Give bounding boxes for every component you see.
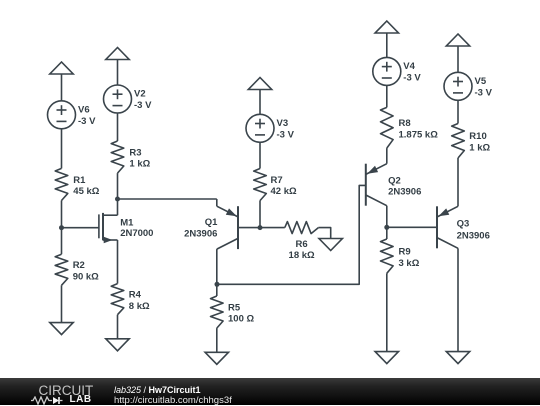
svg-text:R1: R1: [73, 175, 86, 186]
node at R1/R2/M1-gate junction: [59, 225, 64, 230]
resistor R2 90 kOhm: [55, 254, 99, 285]
svg-text:-3 V: -3 V: [78, 116, 96, 127]
wire: [117, 173, 119, 215]
wire: [260, 227, 285, 229]
wire Q1 collector: [216, 249, 218, 296]
svg-text:R8: R8: [399, 118, 411, 129]
resistor R5 100 Ohm: [211, 296, 255, 328]
transistor Q2 2N3906 PNP: [366, 164, 422, 206]
footer title text: [114, 385, 201, 395]
resistor R4 8 kOhm: [111, 284, 150, 315]
CircuitLab logo wordmark: [39, 383, 94, 398]
logo resistor+diode glyph: [31, 396, 71, 405]
wire Q3 collector: [457, 248, 459, 351]
svg-text:100 Ω: 100 Ω: [228, 314, 254, 325]
footer url text: [114, 395, 232, 406]
svg-text:R3: R3: [129, 147, 141, 158]
node at R7/R6/Q1-base junction: [258, 225, 263, 230]
svg-text:-3 V: -3 V: [475, 87, 493, 98]
wire to M1 gate: [62, 227, 99, 229]
wire: [61, 285, 63, 322]
svg-text:2N3906: 2N3906: [457, 230, 490, 241]
wire: [216, 328, 218, 352]
wire: [457, 158, 459, 206]
wire node A to Q2 base: [217, 185, 366, 284]
wire: [117, 315, 119, 339]
voltage source V2 -3 V: [104, 85, 153, 113]
svg-text:R10: R10: [469, 131, 486, 142]
svg-text:18 kΩ: 18 kΩ: [289, 250, 315, 261]
voltage source V3 -3 V: [246, 114, 295, 142]
svg-text:Q2: Q2: [388, 176, 401, 187]
wire: [117, 240, 119, 284]
wire: [117, 60, 119, 86]
svg-text:V6: V6: [78, 105, 90, 116]
wire: [259, 90, 261, 115]
svg-text:R5: R5: [228, 302, 241, 313]
svg-text:R9: R9: [399, 246, 411, 257]
ground below R9: [375, 352, 398, 364]
svg-text:Q3: Q3: [457, 219, 470, 230]
power flag above V2: [106, 48, 129, 60]
svg-text:2N7000: 2N7000: [120, 228, 153, 239]
resistor R3 1 kOhm: [111, 141, 150, 173]
node at Q2-collector/R9/Q3-base junction: [384, 225, 389, 230]
svg-text:-3 V: -3 V: [277, 129, 295, 140]
svg-text:-3 V: -3 V: [403, 73, 421, 84]
wire: [61, 74, 63, 101]
ground right of R6: [319, 239, 342, 251]
svg-text:R7: R7: [271, 175, 283, 186]
wire: [318, 228, 330, 239]
svg-text:1 kΩ: 1 kΩ: [469, 142, 490, 153]
ground below R2: [50, 323, 73, 335]
wire: [259, 142, 261, 168]
svg-text:Q1: Q1: [205, 217, 218, 228]
ground below R4: [106, 339, 129, 351]
voltage source V4 -3 V: [373, 57, 422, 85]
svg-text:1.875 kΩ: 1.875 kΩ: [399, 129, 439, 140]
resistor R6 18 kOhm: [285, 222, 319, 261]
resistor R1 45 kOhm: [55, 168, 100, 200]
node at Q1-collector/R5 junction: [215, 282, 220, 287]
svg-text:42 kΩ: 42 kΩ: [271, 186, 297, 197]
svg-text:3 kΩ: 3 kΩ: [399, 258, 420, 269]
wire: [117, 113, 119, 141]
voltage source V6 -3 V: [48, 101, 97, 129]
transistor Q1 2N3906 PNP: [184, 199, 260, 249]
wire: [457, 100, 459, 123]
wire Q2 collector: [386, 206, 388, 239]
svg-text:2N3906: 2N3906: [388, 187, 421, 198]
wire: [61, 201, 63, 255]
wire: [386, 148, 388, 164]
power flag above V3: [248, 78, 271, 90]
resistor R10 1 kOhm: [452, 124, 491, 159]
ground below R5: [205, 352, 228, 364]
wire: [259, 201, 261, 228]
svg-text:V4: V4: [403, 61, 415, 72]
wire to Q3 base: [387, 226, 437, 228]
wire: [61, 129, 63, 169]
transistor Q3 2N3906 PNP: [437, 206, 490, 248]
svg-text:-3 V: -3 V: [134, 100, 152, 111]
svg-text:R6: R6: [296, 239, 308, 250]
svg-text:V2: V2: [134, 89, 146, 100]
svg-text:R4: R4: [129, 289, 142, 300]
svg-text:90 kΩ: 90 kΩ: [73, 271, 99, 282]
wire: [386, 85, 388, 107]
wire drain node to Q1 emitter: [118, 198, 217, 200]
svg-text:R2: R2: [73, 260, 85, 271]
resistor R9 3 kOhm: [381, 239, 420, 273]
svg-text:V3: V3: [277, 118, 289, 129]
ground below Q3: [446, 352, 469, 364]
wire: [386, 33, 388, 57]
svg-text:45 kΩ: 45 kΩ: [73, 186, 99, 197]
transistor M1 2N7000 NMOS: [99, 213, 154, 243]
resistor R7 42 kOhm: [254, 169, 297, 201]
svg-text:1 kΩ: 1 kΩ: [129, 159, 150, 170]
svg-text:V5: V5: [475, 76, 487, 87]
wire: [386, 273, 388, 351]
wire: [457, 46, 459, 72]
power flag above V5: [446, 34, 469, 46]
node at R3/M1-drain/Q1 junction: [115, 197, 120, 202]
resistor R8 1.875 kOhm: [381, 107, 439, 148]
svg-text:2N3906: 2N3906: [184, 229, 217, 240]
power flag above V4: [375, 21, 398, 33]
svg-text:8 kΩ: 8 kΩ: [129, 301, 150, 312]
power flag above V6: [50, 62, 73, 74]
voltage source V5 -3 V: [444, 72, 493, 100]
